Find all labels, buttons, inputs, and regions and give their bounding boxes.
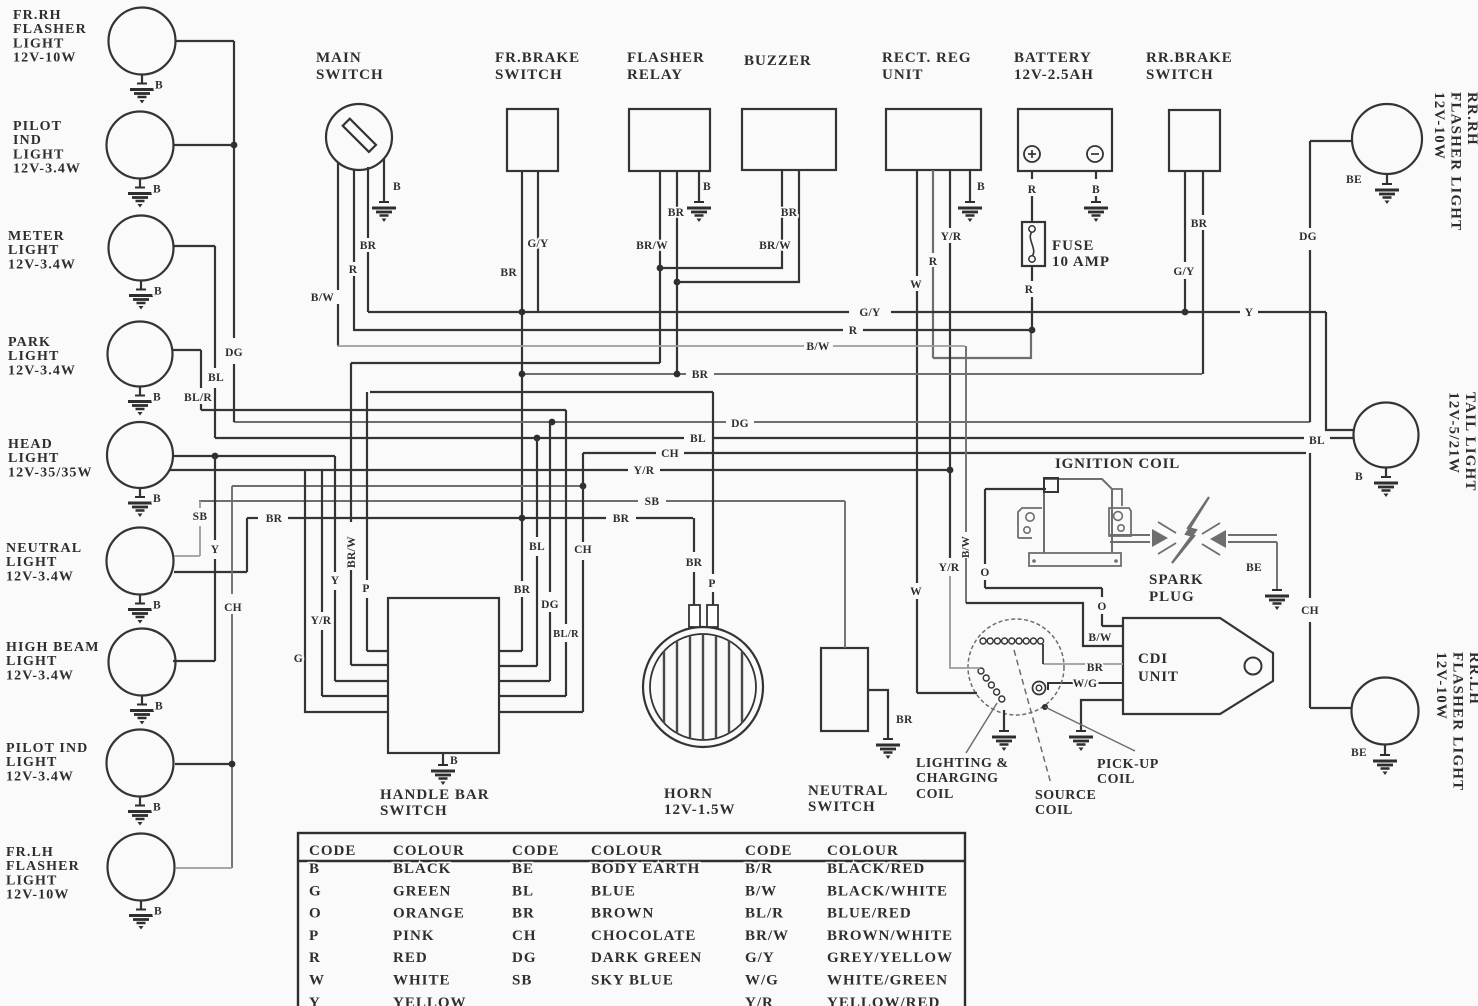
svg-text:NEUTRAL: NEUTRAL: [808, 783, 888, 799]
wire head light lower to G/YR: [168, 469, 170, 471]
svg-text:LIGHT: LIGHT: [6, 755, 57, 770]
svg-text:P: P: [708, 578, 715, 590]
svg-text:NEUTRAL: NEUTRAL: [6, 541, 82, 556]
wire Y bus (head): [173, 453, 335, 460]
svg-text:COIL: COIL: [1035, 803, 1073, 818]
svg-text:COLOUR: COLOUR: [591, 843, 663, 859]
flasher relay ground B: [687, 171, 711, 222]
svg-text:DG: DG: [731, 418, 749, 430]
wire flasher relay BR pin: [668, 171, 685, 374]
svg-text:BE: BE: [1246, 562, 1262, 574]
svg-text:O: O: [309, 906, 322, 922]
svg-text:R: R: [1025, 284, 1034, 296]
svg-text:COLOUR: COLOUR: [393, 843, 465, 859]
svg-text:B: B: [393, 181, 401, 193]
svg-text:B: B: [155, 701, 163, 713]
svg-text:B/W: B/W: [311, 292, 334, 304]
wire buzzer BR pin: [677, 170, 799, 282]
lamp head light: [8, 422, 173, 517]
wire B/W bus: [337, 341, 965, 353]
wire handlebar G: [294, 470, 388, 712]
wire SB bus: [199, 496, 845, 508]
svg-text:SKY BLUE: SKY BLUE: [591, 973, 674, 989]
svg-text:R: R: [929, 256, 938, 268]
svg-text:PARK: PARK: [8, 335, 51, 350]
wire Y vertical left: [211, 456, 220, 661]
wire buzzer BR/W pin: [660, 170, 791, 268]
svg-text:HIGH BEAM: HIGH BEAM: [6, 640, 100, 655]
svg-text:CODE: CODE: [512, 843, 559, 859]
svg-text:BL: BL: [208, 372, 224, 384]
svg-text:12V-10W: 12V-10W: [6, 888, 69, 903]
svg-text:BE: BE: [1346, 174, 1362, 186]
svg-text:W/G: W/G: [1073, 678, 1098, 690]
svg-text:HEAD: HEAD: [8, 437, 53, 452]
svg-text:R: R: [1028, 184, 1037, 196]
svg-text:LIGHT: LIGHT: [6, 555, 57, 570]
svg-text:LIGHT: LIGHT: [6, 654, 57, 669]
wire battery R to fuse: [1028, 171, 1037, 222]
wire P bus: [370, 391, 713, 393]
svg-text:B/R: B/R: [745, 861, 773, 877]
wire DG bus: [234, 418, 1310, 430]
svg-text:12V-3.4W: 12V-3.4W: [13, 162, 81, 177]
svg-text:COIL: COIL: [1097, 772, 1135, 787]
svg-text:COIL: COIL: [916, 787, 954, 802]
svg-text:FLASHER: FLASHER: [627, 50, 705, 66]
svg-text:B: B: [703, 181, 711, 193]
svg-text:CH: CH: [1301, 605, 1319, 617]
wire CH to RR.LH: [1301, 453, 1352, 708]
svg-text:BLACK/RED: BLACK/RED: [827, 861, 925, 877]
wire main switch R: [349, 170, 358, 330]
lamp RR.LH flasher light: [1351, 652, 1478, 791]
wire pilot2 to CH: [175, 763, 232, 765]
svg-text:BE: BE: [512, 861, 534, 877]
svg-text:B: B: [977, 181, 985, 193]
svg-text:LIGHTING &: LIGHTING &: [916, 756, 1009, 771]
wire rect reg Y/R pin: [939, 170, 962, 668]
svg-text:G/Y: G/Y: [1173, 266, 1195, 278]
wire BR/W bus: [351, 362, 660, 364]
svg-text:FLASHER: FLASHER: [13, 22, 87, 37]
wire CDI W/G from pickup: [1048, 678, 1123, 690]
wire neutral switch SB drop: [844, 501, 846, 648]
wire Y/R bus: [169, 465, 950, 477]
svg-text:R: R: [309, 950, 321, 966]
svg-text:BR: BR: [686, 557, 703, 569]
svg-text:CH: CH: [661, 448, 679, 460]
svg-text:Y/R: Y/R: [939, 562, 960, 574]
svg-text:DG: DG: [1299, 231, 1317, 243]
svg-text:DG: DG: [541, 599, 559, 611]
svg-text:HORN: HORN: [664, 786, 713, 802]
svg-text:Y: Y: [211, 544, 220, 556]
svg-text:CHARGING: CHARGING: [916, 771, 999, 786]
svg-text:BR: BR: [266, 513, 283, 525]
svg-text:G: G: [309, 883, 322, 899]
wire BR bus lower: [247, 513, 693, 525]
svg-text:SB: SB: [512, 973, 532, 989]
svg-text:B: B: [1092, 184, 1100, 196]
svg-text:COLOUR: COLOUR: [827, 843, 899, 859]
svg-text:12V-10W: 12V-10W: [13, 51, 76, 66]
svg-text:GREY/YELLOW: GREY/YELLOW: [827, 950, 953, 966]
svg-text:PINK: PINK: [393, 928, 435, 944]
lamp tail light: [1354, 392, 1478, 497]
lamp pilot indicator light 1: [13, 112, 174, 208]
wire CDI BR from coil: [1043, 662, 1123, 674]
fuse 10 AMP: [1022, 222, 1110, 270]
svg-text:BR: BR: [613, 513, 630, 525]
ignition coil: [1018, 456, 1180, 566]
svg-text:SWITCH: SWITCH: [1146, 67, 1214, 83]
svg-text:UNIT: UNIT: [1138, 669, 1179, 685]
rectifier regulator unit: [882, 50, 981, 170]
svg-text:BR: BR: [514, 584, 531, 596]
svg-text:SWITCH: SWITCH: [316, 67, 384, 83]
svg-text:WHITE: WHITE: [393, 973, 451, 989]
pick-up coil: [1033, 682, 1159, 788]
svg-text:B/W: B/W: [745, 883, 777, 899]
svg-text:BROWN/WHITE: BROWN/WHITE: [827, 928, 953, 944]
svg-text:MAIN: MAIN: [316, 50, 362, 66]
svg-text:B: B: [153, 600, 161, 612]
svg-text:SWITCH: SWITCH: [495, 67, 563, 83]
wire main switch B/W: [311, 163, 338, 346]
lamp park light: [8, 322, 173, 416]
svg-text:Y/R: Y/R: [745, 995, 774, 1006]
svg-text:SWITCH: SWITCH: [808, 799, 876, 815]
svg-text:CH: CH: [224, 602, 242, 614]
wire high beam Y: [173, 660, 215, 662]
svg-text:B: B: [153, 493, 161, 505]
svg-text:FR.BRAKE: FR.BRAKE: [495, 50, 580, 66]
svg-text:G: G: [294, 653, 303, 665]
wire rr.brake BR pin: [1191, 171, 1208, 374]
svg-text:GREEN: GREEN: [393, 883, 451, 899]
svg-text:UNIT: UNIT: [882, 67, 924, 83]
wire DG vertical right: [1299, 141, 1317, 422]
wire neutral light BR: [174, 518, 247, 572]
spark plug ground BE: [1246, 542, 1289, 610]
svg-text:HANDLE BAR: HANDLE BAR: [380, 787, 490, 803]
svg-text:R: R: [849, 325, 858, 337]
svg-text:PILOT: PILOT: [13, 119, 62, 134]
wire pilot1 to DG: [173, 144, 234, 146]
wire coil Y/R entry: [949, 667, 980, 669]
svg-text:FUSE: FUSE: [1052, 238, 1094, 254]
svg-text:IND: IND: [13, 133, 42, 148]
svg-text:10 AMP: 10 AMP: [1052, 254, 1110, 270]
svg-text:BR/W: BR/W: [759, 240, 791, 252]
wire handlebar BL/R right: [499, 410, 579, 696]
horn 12V-1.5W: [643, 605, 763, 818]
svg-text:B: B: [450, 755, 458, 767]
CDI unit: [1123, 618, 1273, 714]
svg-text:BR: BR: [512, 906, 535, 922]
svg-text:BR: BR: [781, 207, 798, 219]
wire CDI ground: [1069, 700, 1123, 751]
wire BL bus: [215, 433, 1354, 447]
svg-text:B: B: [154, 906, 162, 918]
svg-text:12V-3.4W: 12V-3.4W: [6, 769, 74, 784]
lighting coil ground: [992, 710, 1016, 751]
svg-text:FR.LH: FR.LH: [6, 845, 54, 860]
svg-text:BLUE: BLUE: [591, 883, 636, 899]
svg-text:PILOT IND: PILOT IND: [6, 741, 88, 756]
svg-text:IGNITION COIL: IGNITION COIL: [1055, 456, 1180, 472]
svg-text:SWITCH: SWITCH: [380, 803, 448, 819]
svg-text:12V-1.5W: 12V-1.5W: [664, 802, 735, 818]
svg-text:G/Y: G/Y: [745, 950, 775, 966]
svg-text:12V-3.4W: 12V-3.4W: [8, 363, 76, 378]
svg-text:FLASHER: FLASHER: [6, 859, 80, 874]
wire rect reg R pin: [929, 170, 938, 358]
svg-text:B/W: B/W: [960, 536, 972, 558]
wire CH vertical left: [224, 486, 242, 868]
svg-text:PLUG: PLUG: [1149, 589, 1195, 605]
svg-text:CDI: CDI: [1138, 651, 1168, 667]
svg-text:BATTERY: BATTERY: [1014, 50, 1092, 66]
handle bar switch: [380, 598, 499, 819]
wire Y to tail light: [1326, 312, 1354, 430]
svg-text:CHOCOLATE: CHOCOLATE: [591, 928, 696, 944]
svg-text:BR/W: BR/W: [636, 240, 668, 252]
svg-text:Y: Y: [1245, 307, 1254, 319]
svg-text:B: B: [153, 184, 161, 196]
svg-text:SOURCE: SOURCE: [1035, 788, 1096, 803]
svg-text:12V-2.5AH: 12V-2.5AH: [1014, 67, 1094, 83]
svg-text:DG: DG: [225, 347, 243, 359]
wire G/Y - Y bus: [368, 307, 1326, 319]
svg-text:G/Y: G/Y: [859, 307, 881, 319]
svg-text:LIGHT: LIGHT: [6, 873, 57, 888]
wire handlebar P: [362, 392, 388, 651]
svg-text:G/Y: G/Y: [527, 238, 549, 250]
svg-text:SPARK: SPARK: [1149, 572, 1204, 588]
svg-text:W: W: [309, 973, 325, 989]
svg-text:BROWN: BROWN: [591, 906, 654, 922]
svg-text:BLUE/RED: BLUE/RED: [827, 906, 912, 922]
neutral switch: [808, 648, 888, 815]
lamp neutral light: [6, 528, 174, 624]
svg-text:BL: BL: [690, 433, 706, 445]
svg-text:B: B: [155, 80, 163, 92]
flasher relay: [627, 50, 710, 171]
svg-text:CODE: CODE: [745, 843, 792, 859]
svg-text:METER: METER: [8, 229, 65, 244]
svg-text:LIGHT: LIGHT: [8, 451, 59, 466]
wire park light BL/R: [172, 350, 212, 410]
fr.brake switch: [495, 50, 580, 171]
wire FR.LH to CH: [176, 867, 232, 869]
svg-text:BR/W: BR/W: [745, 928, 789, 944]
wire BL/R bus: [201, 409, 566, 411]
svg-text:R: R: [349, 264, 358, 276]
svg-text:BL/R: BL/R: [745, 906, 784, 922]
svg-text:Y/R: Y/R: [634, 465, 655, 477]
svg-text:Y/R: Y/R: [311, 615, 332, 627]
wire CH bus: [583, 448, 1306, 460]
svg-text:BR: BR: [896, 714, 913, 726]
wire rect reg R detour: [933, 332, 1031, 358]
svg-text:CH: CH: [512, 928, 537, 944]
svg-text:12V-3.4W: 12V-3.4W: [6, 668, 74, 683]
wire rr.brake G/Y pin: [1173, 171, 1195, 315]
wire fr.brake BR pin: [500, 171, 530, 651]
wire handlebar BR right: [499, 650, 522, 652]
svg-text:BUZZER: BUZZER: [744, 53, 812, 69]
svg-text:12V-35/35W: 12V-35/35W: [8, 465, 93, 480]
wire main switch BR: [360, 167, 377, 312]
main switch ground B: [372, 159, 401, 222]
svg-text:W: W: [910, 279, 922, 291]
wire FR.RH flasher to DG: [175, 40, 234, 42]
svg-text:CODE: CODE: [309, 843, 356, 859]
svg-text:ORANGE: ORANGE: [393, 906, 465, 922]
svg-text:O: O: [1097, 601, 1106, 613]
svg-text:12V-3.4W: 12V-3.4W: [6, 569, 74, 584]
lamp meter light: [8, 216, 174, 310]
wire R bus: [353, 325, 1032, 337]
wire flasher relay BR/W pin: [636, 171, 668, 363]
svg-text:W/G: W/G: [745, 973, 779, 989]
svg-text:BR: BR: [668, 207, 685, 219]
svg-text:SB: SB: [645, 496, 660, 508]
wire fuse R down: [1025, 266, 1036, 333]
wire CH link bus: [232, 483, 586, 490]
svg-text:BL/R: BL/R: [184, 392, 212, 404]
lighting and charging coil: [916, 619, 1064, 802]
lamp RR.RH flasher light: [1310, 92, 1478, 231]
rr.brake switch: [1146, 50, 1233, 171]
svg-text:CH: CH: [574, 544, 592, 556]
svg-text:FR.RH: FR.RH: [13, 8, 62, 23]
svg-text:W: W: [910, 586, 922, 598]
svg-text:BLACK: BLACK: [393, 861, 451, 877]
svg-text:SB: SB: [193, 511, 208, 523]
svg-text:Y: Y: [331, 575, 340, 587]
wire fr.brake G/Y pin: [527, 171, 549, 312]
svg-text:LIGHT: LIGHT: [8, 243, 59, 258]
lighting coil pointer: [966, 703, 997, 753]
svg-text:YELLOW/RED: YELLOW/RED: [827, 995, 940, 1006]
svg-text:BR: BR: [360, 240, 377, 252]
wire neutral switch ground BR: [868, 690, 913, 759]
lamp FR.LH flasher light: [6, 834, 175, 930]
lamp FR.RH flasher light: [13, 8, 176, 104]
svg-text:BR/W: BR/W: [346, 536, 358, 568]
svg-text:BR: BR: [1087, 662, 1104, 674]
svg-text:BL: BL: [529, 541, 545, 553]
svg-text:YELLOW: YELLOW: [393, 995, 467, 1006]
svg-text:BODY EARTH: BODY EARTH: [591, 861, 700, 877]
wire handlebar Y: [331, 456, 388, 681]
wire handlebar BL right: [499, 438, 545, 666]
wire DG vertical left: [225, 41, 243, 422]
svg-text:B: B: [153, 802, 161, 814]
svg-text:B/W: B/W: [1088, 632, 1111, 644]
svg-text:B: B: [153, 392, 161, 404]
battery ground B: [1084, 171, 1108, 222]
svg-text:BLACK/WHITE: BLACK/WHITE: [827, 883, 948, 899]
svg-text:BL: BL: [1309, 435, 1325, 447]
buzzer: [742, 53, 836, 170]
svg-text:B: B: [309, 861, 320, 877]
spark plug HT lead: [1110, 535, 1277, 542]
svg-text:Y/R: Y/R: [941, 231, 962, 243]
wire rect reg W pin: [910, 170, 922, 693]
svg-text:LIGHT: LIGHT: [13, 147, 64, 162]
wire handlebar CH right: [499, 453, 592, 712]
svg-text:LIGHT: LIGHT: [13, 36, 64, 51]
wire horn BR: [686, 518, 703, 605]
svg-text:P: P: [309, 928, 319, 944]
wire handlebar DG right: [499, 422, 559, 681]
svg-text:O: O: [980, 567, 989, 579]
rect reg ground B: [958, 170, 985, 222]
wire handlebar BR/W: [346, 363, 388, 665]
svg-text:DG: DG: [512, 950, 537, 966]
wire neutral light SB: [174, 501, 207, 556]
svg-text:BL/R: BL/R: [553, 629, 579, 640]
svg-text:DARK GREEN: DARK GREEN: [591, 950, 702, 966]
svg-text:RELAY: RELAY: [627, 67, 683, 83]
svg-text:WHITE/GREEN: WHITE/GREEN: [827, 973, 948, 989]
svg-text:12V-3.4W: 12V-3.4W: [8, 257, 76, 272]
svg-text:BR: BR: [1191, 218, 1208, 230]
svg-text:B: B: [1355, 471, 1363, 483]
spark plug: [1149, 497, 1226, 605]
svg-text:BE: BE: [1351, 747, 1367, 759]
source coil: [978, 650, 1096, 818]
svg-text:RED: RED: [393, 950, 428, 966]
main switch: [316, 50, 392, 170]
svg-text:Y: Y: [309, 995, 321, 1006]
svg-text:B/W: B/W: [806, 341, 829, 353]
svg-text:LIGHT: LIGHT: [8, 349, 59, 364]
wire O: [980, 489, 1123, 626]
handle bar switch ground B: [431, 753, 458, 785]
svg-text:RR.BRAKE: RR.BRAKE: [1146, 50, 1233, 66]
lamp pilot indicator light 2: [6, 730, 174, 826]
svg-text:RECT. REG: RECT. REG: [882, 50, 972, 66]
lamp high beam light: [6, 629, 176, 725]
wire meter light BL: [173, 246, 224, 438]
wire coil W entry: [917, 692, 977, 694]
colour code table: [298, 833, 965, 1006]
wire handlebar Y/R: [311, 470, 388, 696]
wire BR bus upper: [519, 369, 1202, 381]
svg-text:PICK-UP: PICK-UP: [1097, 757, 1159, 772]
svg-text:P: P: [362, 583, 369, 595]
wire horn P: [708, 392, 715, 605]
wire B/W to CDI: [960, 346, 1123, 646]
svg-text:BL: BL: [512, 883, 534, 899]
svg-text:BR: BR: [500, 267, 517, 279]
svg-text:B: B: [154, 286, 162, 298]
svg-text:BR: BR: [692, 369, 709, 381]
battery 12V-2.5AH: [1014, 50, 1112, 171]
